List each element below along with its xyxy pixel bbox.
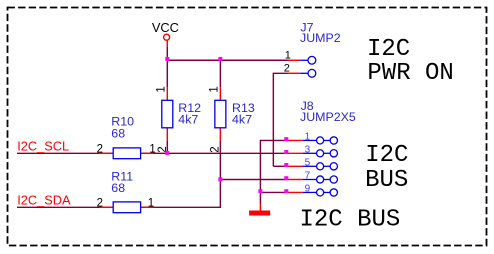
svg-text:2: 2 [284, 62, 290, 74]
resistor R13 [215, 87, 226, 141]
svg-text:1: 1 [149, 144, 155, 156]
svg-text:1: 1 [208, 86, 220, 92]
junction J8 pin 5 [284, 163, 288, 167]
wire SDA branch to J8 pin 7 [220, 179, 286, 181]
wire J7 pin2 to J8 pin 5 [273, 165, 286, 167]
svg-text:4k7: 4k7 [232, 112, 252, 126]
svg-text:2: 2 [97, 144, 103, 156]
svg-text:I2C_SDA: I2C_SDA [17, 192, 71, 207]
resistor R10 [99, 148, 153, 159]
svg-text:JUMP2X5: JUMP2X5 [300, 110, 356, 124]
svg-text:3: 3 [305, 144, 311, 155]
jumper J8 [287, 137, 338, 196]
junction J8 pin 3 [284, 150, 288, 154]
svg-text:4k7: 4k7 [178, 112, 198, 126]
ground [249, 204, 270, 216]
svg-text:I2C BUS: I2C BUS [300, 207, 401, 234]
svg-text:1: 1 [305, 132, 311, 143]
svg-text:I2C: I2C [367, 36, 410, 63]
junction J8 pin 7 [284, 176, 288, 180]
svg-text:9: 9 [305, 184, 311, 195]
svg-text:1: 1 [285, 49, 291, 61]
resistor R12 [162, 87, 173, 141]
wire J7 pin2 vertical [273, 73, 287, 166]
power symbol VCC [164, 34, 170, 47]
svg-text:2: 2 [209, 146, 221, 152]
wire VCC bus [167, 59, 288, 61]
junction R13/SDA/pin7 [218, 177, 222, 181]
wire ground to J8 pin 9 [260, 191, 286, 193]
jumper J7 [288, 56, 316, 77]
svg-text:68: 68 [111, 181, 125, 195]
wire ground vertical [260, 140, 286, 203]
svg-text:PWR ON: PWR ON [367, 60, 453, 87]
resistor R11 [99, 202, 153, 213]
wire SDA [17, 206, 221, 208]
junction J8 pin 9 [284, 189, 288, 193]
svg-text:1: 1 [155, 86, 167, 92]
svg-text:7: 7 [305, 171, 311, 182]
svg-text:5: 5 [305, 157, 311, 168]
junction R12/SCL [165, 151, 169, 155]
svg-text:JUMP2: JUMP2 [300, 31, 341, 45]
junction VCC/R12 [165, 57, 169, 61]
wire VCC stub to bus [166, 47, 168, 60]
wire SCL [17, 152, 287, 154]
svg-text:1: 1 [148, 198, 154, 210]
wire R12 bottom to SCL [166, 141, 168, 153]
wire R13 vertical to SDA [219, 141, 221, 208]
junction ground/pin9 [258, 189, 262, 193]
svg-text:68: 68 [111, 127, 125, 141]
svg-text:2: 2 [97, 198, 103, 210]
wire bus to R13 top [219, 60, 221, 87]
svg-text:VCC: VCC [152, 20, 179, 35]
junction J8 pin 1 [284, 137, 288, 141]
text I2C PWR ON [367, 36, 454, 87]
wire bus to R12 top [166, 60, 168, 87]
svg-text:I2C_SCL: I2C_SCL [17, 138, 69, 153]
svg-text:I2C: I2C [365, 142, 408, 169]
text I2C BUS (right) [365, 142, 408, 194]
svg-text:BUS: BUS [365, 167, 408, 194]
junction VCC/R13 [218, 57, 222, 61]
